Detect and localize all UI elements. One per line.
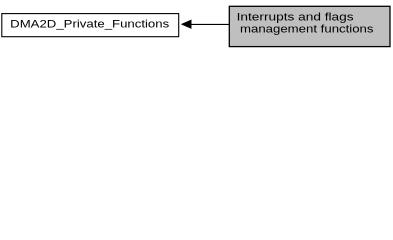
svg-text:Interrupts and flags: Interrupts and flags <box>237 11 354 23</box>
svg-text:management functions: management functions <box>240 23 374 35</box>
svg-text:DMA2D_Private_Functions: DMA2D_Private_Functions <box>10 19 169 31</box>
node box Interrupts and flags management functions <box>229 6 390 46</box>
wire edge from gray node to left node <box>191 23 230 25</box>
arrowhead pointing left <box>181 20 191 29</box>
node box DMA2D_Private_Functions <box>2 14 179 37</box>
